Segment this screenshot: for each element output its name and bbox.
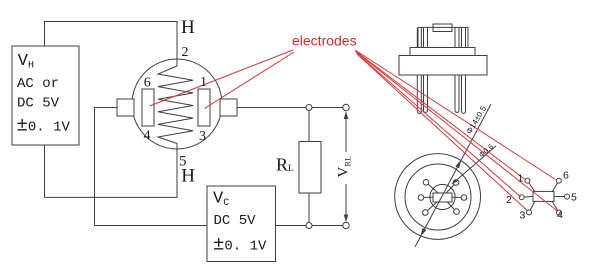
svg-text:2: 2 [182,45,189,60]
cap top tab [433,24,452,32]
pin lead 4 (side view, far right) [462,28,466,114]
svg-text:3: 3 [199,129,206,144]
cap body [418,27,468,48]
node junction bottom [306,223,312,229]
hub circle [430,184,455,209]
wire top H loop from VH to pin 2 [45,22,178,67]
svg-text:1: 1 [200,75,207,90]
pin stub right [220,99,237,116]
wire VC right to bottom terminal [276,225,347,227]
wire VH bottom to pin 5 [45,145,178,197]
wire RL branch top [308,108,310,142]
svg-text:4: 4 [557,209,563,221]
svg-text:RL: RL [276,154,294,174]
pinout circle pin 1 [525,178,530,183]
pinout circle pin 3 [527,210,532,215]
spoke to left pin [421,196,443,199]
spoke to upper-right pin [443,183,457,198]
box VH [12,46,79,145]
pin dia leader line [452,146,496,184]
resistor RL body [299,142,321,194]
svg-text:2: 2 [506,194,512,206]
svg-text:6: 6 [563,170,569,182]
svg-text:DC 5V: DC 5V [17,95,60,111]
svg-text:VRL: VRL [336,156,353,178]
pin lead 5 (side view) [424,28,428,113]
bottom view right pin circle [461,195,467,201]
leader arrowhead [453,179,458,184]
spoke to right pin [443,196,465,199]
VRL arrowhead up [344,112,349,120]
bottom view lower-left pin circle [423,210,429,216]
bottom view upper-right pin circle [453,180,459,186]
dim arrowhead upper [455,160,461,169]
VRL arrow upper segment [345,112,347,152]
bottom view outer rim circle [395,154,481,240]
diameter dimension line [415,104,491,247]
hub plate rect [433,193,452,202]
flange [399,56,487,76]
sensor envelope circle [132,59,222,149]
pin lead 2 (side view, far left) [417,28,421,114]
pinout circle pin 2 [519,195,524,200]
VRL arrowhead down [344,215,349,223]
svg-text:AC or: AC or [17,76,59,92]
pin lead 1 (side view) [455,28,459,113]
pinout circle pin 5 [565,194,570,199]
terminal top [343,104,349,110]
base step [410,48,475,56]
leader to pin 6 [355,50,556,180]
pinout circle pin 6 [556,178,561,183]
electrode right plate [198,89,210,126]
spoke to lower-left pin [425,197,442,213]
leader to pin 3 [357,54,528,211]
bottom view left pin circle [418,195,424,201]
svg-text:electrodes: electrodes [292,33,357,49]
node junction top [306,105,312,111]
spoke to lower-right pin [443,197,457,212]
leader to pin 1 [356,51,526,180]
dim arrowhead lower [421,228,427,237]
spoke to upper-left pin [426,182,443,197]
leader to pin 4 [356,52,558,212]
pinout lead 3 [529,201,535,212]
electrode left plate [142,89,154,126]
wire pin1 to terminal [237,107,346,109]
pinout lead 6 [552,181,559,192]
pinout lead 5 [554,195,567,197]
heater zigzag pins 2-5 [158,66,193,149]
leader to left electrode [150,50,294,106]
bottom view lower-right pin circle [454,209,460,215]
svg-text:H: H [181,17,195,38]
terminal bottom [343,222,349,228]
pinout lead 1 [528,181,536,192]
svg-text:4: 4 [144,129,151,144]
box VC [207,186,276,262]
bottom view inner rim circle [405,164,471,230]
svg-text:6: 6 [144,76,151,91]
wire pin4 node to VC [95,108,208,226]
svg-text:1: 1 [518,173,524,185]
pinout lead 2 [522,195,533,198]
pinout lead 4 [552,201,559,213]
wire RL branch bottom [308,193,310,226]
pinout rect [533,191,554,201]
leader to right electrode [205,52,295,109]
svg-text:5: 5 [571,192,577,204]
VRL arrow lower segment [345,184,347,221]
pinout circle pin 4 [557,210,562,215]
pin stub left [117,99,134,116]
svg-text:5: 5 [179,154,187,170]
bottom view upper-left pin circle [423,180,429,186]
svg-text:DC 5V: DC 5V [214,213,257,229]
leader to pin 2 [357,53,521,197]
svg-text:3: 3 [520,210,526,222]
